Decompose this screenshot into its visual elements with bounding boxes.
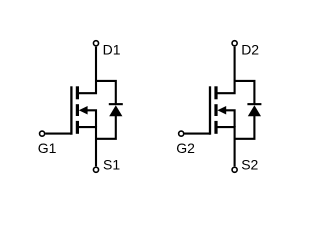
svg-text:G1: G1 [38,140,57,156]
wire: body diode anode to source rail [96,116,116,139]
wire: drain contact to terminal D1 [77,47,96,94]
wire: terminal G2 to gate electrode [184,133,210,135]
wire: substrate arrow to source rail [87,110,96,127]
gate electrode line of Q2 [209,86,211,134]
wire: drain rail branch to body diode cathode [96,81,116,104]
body diode anode triangle of Q2 [248,105,261,116]
svg-text:D1: D1 [103,41,121,57]
wire: source contact to terminal S1 [77,127,96,166]
body diode cathode bar of Q2 [247,103,261,105]
channel source segment of Q1 [76,121,79,134]
channel body segment of Q1 [76,104,79,116]
terminal G1 [40,131,45,136]
wire: body diode anode to source rail [235,116,255,139]
wire: terminal G1 to gate electrode [45,133,71,135]
channel drain segment of Q1 [76,86,79,99]
terminal D1 [93,41,98,46]
svg-text:S1: S1 [103,157,120,173]
terminal S1 [93,167,98,172]
body diode anode triangle of Q1 [109,105,122,116]
wire: substrate arrow to source rail [226,110,235,127]
wire: source contact to terminal S2 [216,127,235,166]
wire: drain contact to terminal D2 [216,47,235,94]
body diode cathode bar of Q1 [109,103,123,105]
transistor Q1 (left n-channel MOSFET with body diode) [40,41,123,173]
wire: drain rail branch to body diode cathode [235,81,255,104]
substrate arrow of Q1 [79,106,88,115]
terminal S2 [232,167,237,172]
substrate arrow of Q2 [217,106,226,115]
gate electrode line of Q1 [70,86,72,134]
terminal G2 [179,131,184,136]
transistor Q2 (right n-channel MOSFET with body diode) [179,41,262,173]
svg-text:G2: G2 [176,140,195,156]
channel body segment of Q2 [214,104,217,116]
channel drain segment of Q2 [214,86,217,99]
terminal D2 [232,41,237,46]
channel source segment of Q2 [214,121,217,134]
svg-text:S2: S2 [241,157,258,173]
svg-text:D2: D2 [241,41,259,57]
